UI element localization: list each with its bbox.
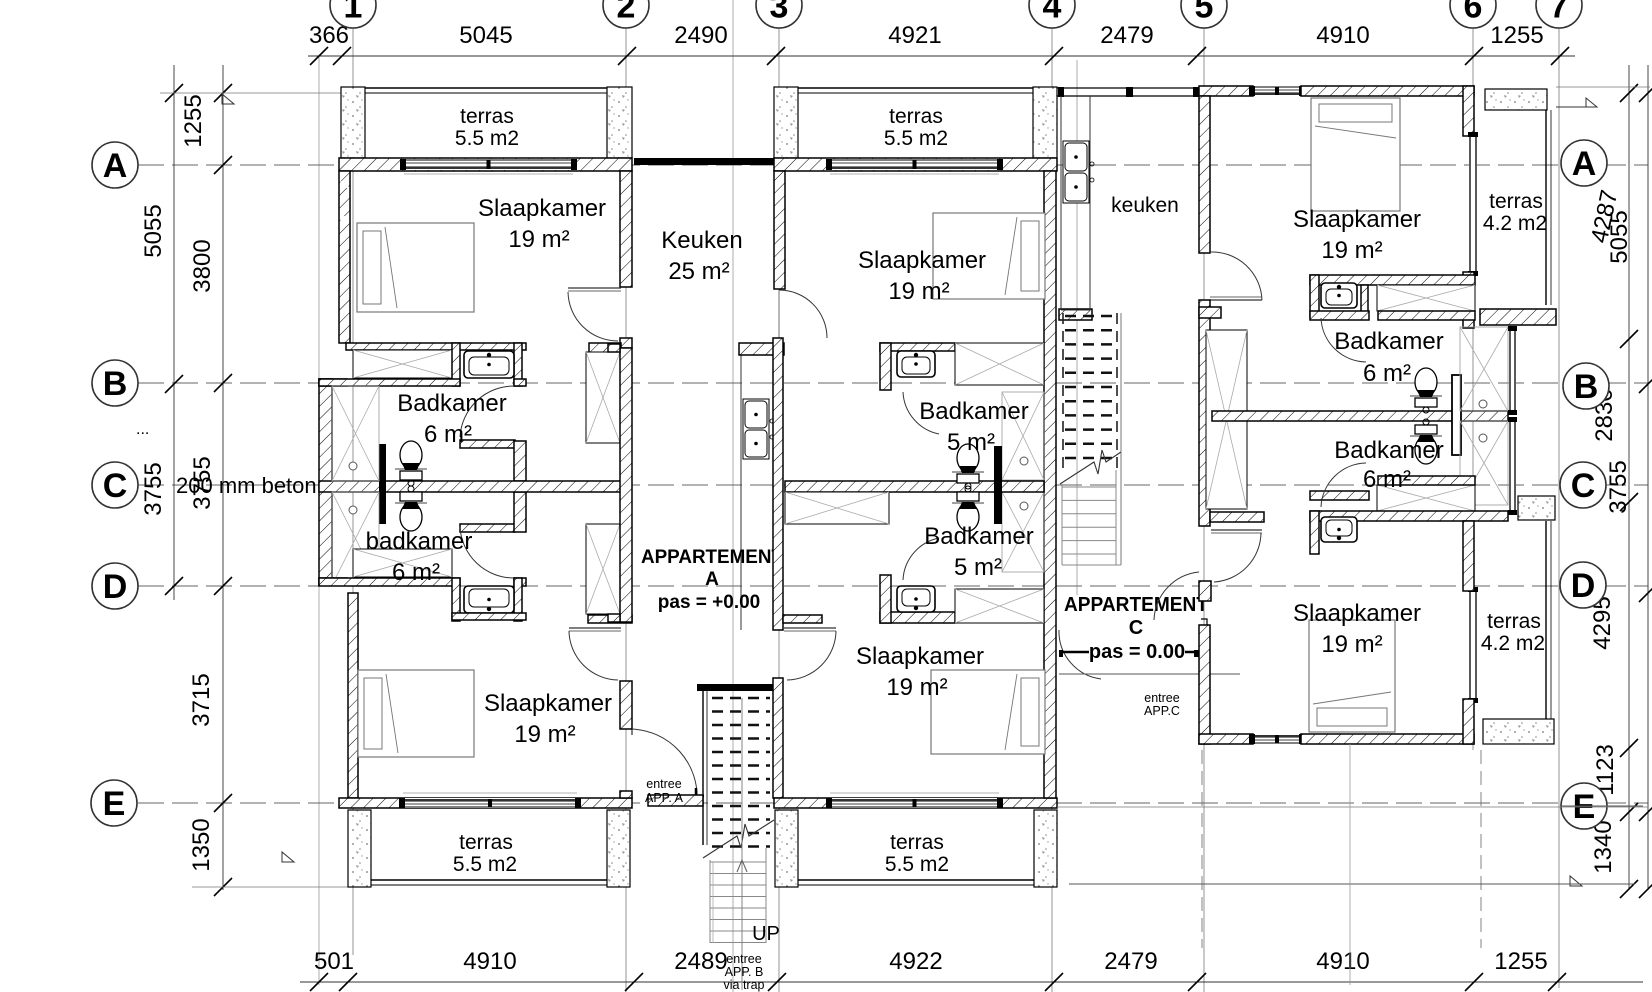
apartment A north window: [400, 159, 577, 170]
apartment A bathroom west connector bottom: [319, 578, 347, 585]
svg-text:5055: 5055: [140, 204, 167, 257]
svg-text:1255: 1255: [180, 94, 207, 147]
grid line 1 vertical: [352, 28, 354, 955]
stair B break zigzag: [703, 820, 774, 858]
grid bubble E right: [1561, 783, 1607, 829]
door apartment B bathroom top arc: [903, 392, 939, 434]
grid line 7 vertical: [1558, 28, 1560, 988]
apartment C bathroom east window lower: [1508, 417, 1517, 515]
toilet partition apartment A: [379, 444, 386, 524]
apartment B terras bottom left pier: [775, 810, 798, 887]
svg-text:3: 3: [770, 0, 789, 25]
grid bubble 5: [1181, 0, 1227, 28]
apartment A terras top right pier: [607, 87, 632, 158]
apartment A east wall mid stub: [620, 338, 632, 348]
svg-text:UP: UP: [752, 923, 780, 945]
svg-text:5.5 m2: 5.5 m2: [885, 853, 949, 876]
apartment C west wall stub below bedroom door: [1199, 581, 1211, 601]
svg-text:25 m²: 25 m²: [668, 258, 729, 285]
grid line 5 vertical: [1203, 28, 1205, 992]
svg-text:entree: entree: [1144, 691, 1179, 705]
apartment C bathroom north xbox: [1377, 285, 1475, 311]
svg-text:terras: terras: [1487, 610, 1541, 633]
reference line x=319: [318, 56, 320, 985]
apartment A terras top railing: [365, 87, 607, 89]
svg-text:terras: terras: [889, 105, 943, 128]
top dimension line: [308, 55, 1575, 57]
row E center line: [138, 802, 1648, 804]
apartment B bathroom bottom wall: [880, 612, 955, 623]
apartment C east window bottom (terrace door): [1468, 587, 1478, 703]
svg-text:terras: terras: [460, 105, 514, 128]
apartment A bathroom mid wall lower (with door gap): [319, 578, 460, 586]
svg-text:pas = 0.00: pas = 0.00: [1089, 641, 1185, 663]
toilet apartment C top: [1410, 368, 1442, 413]
svg-text:3755: 3755: [140, 462, 167, 515]
stair B side edge lower: [709, 860, 711, 943]
apartment A terras top left pier: [341, 87, 365, 158]
terras C bottom south pier: [1483, 719, 1554, 744]
grid bubble E left: [91, 780, 137, 826]
row C center line: [138, 484, 1648, 486]
apartment A west wall bathroom block: [319, 379, 332, 585]
door entree C arc at stairs: [1059, 630, 1101, 679]
terras C top right railing: [1545, 110, 1547, 305]
grid bubble 3: [756, 0, 802, 28]
apartment A east wall lower: [620, 681, 632, 729]
apartment A terras bottom railing: [371, 879, 607, 881]
svg-text:A: A: [1572, 145, 1597, 183]
bed apartment B top: [933, 213, 1045, 299]
svg-text:1340: 1340: [1590, 820, 1617, 873]
row D center line: [138, 585, 1648, 587]
svg-text:19 m²: 19 m²: [508, 226, 569, 253]
svg-text:Slaapkamer: Slaapkamer: [484, 690, 612, 717]
door apartment C bedroom bottom arc: [1214, 533, 1261, 582]
svg-text:19 m²: 19 m²: [1321, 237, 1382, 264]
grid bubble 2: [603, 0, 649, 28]
vertical reference line x=1350 below building: [1349, 744, 1351, 985]
reference line x=1077: [1076, 60, 1078, 595]
grid bubble C left: [92, 462, 138, 508]
grid line 6 vertical: [1472, 28, 1474, 750]
svg-text:2479: 2479: [1100, 22, 1153, 49]
entree APP A cross mark: [688, 788, 704, 804]
party wall row C apartment A: [319, 481, 626, 492]
grid bubble 4: [1029, 0, 1075, 28]
svg-text:D: D: [103, 568, 128, 606]
svg-text:E: E: [103, 785, 126, 823]
svg-text:2489: 2489: [674, 948, 727, 975]
svg-text:3715: 3715: [188, 673, 215, 726]
svg-text:Slaapkamer: Slaapkamer: [858, 247, 986, 274]
svg-text:Badkamer: Badkamer: [1334, 437, 1443, 464]
apartment A bathroom top wall: [346, 343, 526, 350]
svg-text:entree: entree: [646, 777, 681, 791]
apartment C west wall upper: [1199, 96, 1210, 253]
svg-text:5.5 m2: 5.5 m2: [453, 853, 517, 876]
door apartment C bedroom bottom leaf: [1211, 529, 1262, 531]
svg-text:Slaapkamer: Slaapkamer: [478, 195, 606, 222]
apartment A east wall middle: [620, 348, 632, 622]
svg-text:terras: terras: [890, 831, 944, 854]
svg-text:4.2 m2: 4.2 m2: [1481, 632, 1545, 655]
door apartment A bathroom top arc: [460, 386, 514, 437]
svg-text:APPARTEMENT: APPARTEMENT: [641, 547, 783, 568]
bed apartment B bottom: [931, 670, 1045, 754]
grid bubble B left: [92, 360, 138, 406]
washbasin apartment A top: [464, 351, 514, 378]
level triangle marker left: [222, 94, 234, 104]
apartment A bathroom top duct xbox: [353, 350, 452, 378]
door entree C arc in hall: [1154, 572, 1199, 620]
apartment C east wall bottom segments: [1463, 521, 1474, 591]
svg-text:6 m²: 6 m²: [1363, 466, 1411, 493]
apartment B bathroom bottom duct xbox: [955, 589, 1044, 623]
door apartment C bathroom top arc: [1321, 318, 1366, 362]
door apartment B bedroom top: [778, 290, 780, 338]
apartment A hall duct xbox lower: [586, 524, 620, 614]
apartment B east wall: [1044, 171, 1056, 798]
keuken A north wall black bar: [634, 158, 774, 165]
terras C mid wall piece: [1480, 309, 1556, 325]
svg-text:200 mm beton: 200 mm beton: [176, 473, 317, 498]
svg-text:badkamer: badkamer: [366, 528, 473, 555]
stair C bottom landing edge: [1062, 564, 1121, 566]
stair C dashed right border: [1116, 313, 1118, 470]
keuken C counter edges: [1060, 96, 1062, 310]
washbasin apartment B top: [897, 351, 935, 377]
grid bubble C right: [1560, 462, 1606, 508]
apartment A bedroom bottom north wall stub: [588, 615, 632, 623]
apartment B terras bottom railing: [798, 879, 1034, 881]
apartment C bathroom top sink walls: [1310, 275, 1319, 318]
svg-text:5: 5: [1195, 0, 1214, 25]
svg-text:1350: 1350: [188, 818, 215, 871]
apartment C bathroom south wall: [1310, 511, 1508, 521]
svg-text:6 m²: 6 m²: [1363, 360, 1411, 387]
reference vertical dash x=1202 below building: [1201, 750, 1203, 948]
apartment B terras top railing: [798, 87, 1033, 89]
svg-text:3755: 3755: [1605, 460, 1632, 513]
door apartment A bedroom bottom: [569, 627, 621, 629]
bed apartment A bottom: [358, 670, 474, 757]
wall piece below keuken C counter: [1059, 309, 1092, 320]
svg-text:4922: 4922: [889, 948, 942, 975]
svg-text:Badkamer: Badkamer: [919, 398, 1028, 425]
svg-text:C: C: [1571, 467, 1596, 505]
grid bubble A right: [1561, 140, 1607, 186]
apartment A south wall: [339, 798, 632, 808]
apartment B bathroom top left wall: [880, 343, 891, 390]
apartment B bathroom bottom left wall: [880, 575, 891, 623]
zone 4-5 lower boundary line: [1059, 673, 1240, 675]
svg-text:terras: terras: [459, 831, 513, 854]
svg-text:19 m²: 19 m²: [888, 278, 949, 305]
svg-text:Slaapkamer: Slaapkamer: [1293, 206, 1421, 233]
apartment C bathroom north wall: [1310, 275, 1475, 285]
apartment B bathroom top duct xbox: [955, 343, 1044, 385]
left inner dimension line: [222, 65, 224, 890]
svg-text:B: B: [103, 365, 128, 403]
apartment C west wall below bedroom door: [1199, 300, 1210, 526]
svg-text:19 m²: 19 m²: [1321, 631, 1382, 658]
party wall row C apartment C: [1212, 411, 1508, 421]
svg-text:6: 6: [1464, 0, 1483, 25]
apartment A bathroom bottom sink alcove bottom wall: [452, 613, 526, 620]
apartment A bathroom mid wall upper (with door gap): [319, 379, 460, 386]
apartment A bathroom bottom sink enclosure right wall: [514, 578, 522, 621]
toilet apartment A bottom: [395, 486, 427, 531]
flag mark top right: [1556, 106, 1586, 108]
party wall row C apartment B: [785, 481, 1044, 492]
svg-text:pas = +0.00: pas = +0.00: [658, 592, 760, 613]
svg-text:Badkamer: Badkamer: [924, 523, 1033, 550]
washbasin apartment C bottom: [1321, 517, 1357, 542]
terras C top pier stipple: [1485, 89, 1547, 110]
kitchen sink keuken C: [1063, 141, 1094, 203]
grid line 4 vertical: [1051, 28, 1053, 992]
apartment B west wall upper: [774, 171, 785, 289]
svg-text:1255: 1255: [1490, 22, 1543, 49]
svg-text:Slaapkamer: Slaapkamer: [856, 643, 984, 670]
right inner dimension line: [1628, 65, 1630, 890]
shower apartment A bottom: [332, 492, 379, 585]
apartment B terras top left pier: [774, 87, 798, 158]
apartment C east wall upper mid: [1463, 272, 1474, 328]
right outer dimension line: [1647, 65, 1649, 890]
svg-text:5 m²: 5 m²: [947, 429, 995, 456]
zone 4-5 north balustrade double line: [1057, 87, 1199, 89]
apartment A bathroom west connector top: [319, 379, 347, 386]
keuken A counter edge line: [740, 355, 742, 630]
svg-text:5.5 m2: 5.5 m2: [455, 127, 519, 150]
washbasin apartment A bottom: [464, 586, 514, 613]
svg-text:1: 1: [344, 0, 363, 25]
apartment A south window: [399, 798, 581, 808]
apartment B south window: [826, 798, 1003, 808]
svg-text:4.2 m2: 4.2 m2: [1483, 212, 1547, 235]
apartment A terras bottom right pier: [607, 810, 630, 887]
svg-text:19 m²: 19 m²: [514, 721, 575, 748]
terras C bottom right railing: [1545, 521, 1547, 734]
svg-text:5 m²: 5 m²: [954, 554, 1002, 581]
shower apartment A top: [332, 386, 379, 481]
apartment C east wall top: [1463, 86, 1474, 136]
apartment C bathroom bottom sink walls: [1310, 511, 1319, 554]
apartment C west wall stub at wall307: [1199, 307, 1221, 318]
grid line 3 vertical: [778, 28, 780, 992]
shower apartment B bottom: [1002, 492, 1044, 572]
apartment A bathroom bottom sink enclosure left wall: [452, 578, 460, 621]
apartment A east wall stub top of hall: [608, 344, 620, 352]
grid bubble A left: [92, 142, 138, 188]
toilet apartment C bottom: [1410, 419, 1442, 464]
toilet partition apartment C: [1452, 375, 1461, 455]
stair C treads solid lower flight: [1062, 486, 1116, 488]
washbasin apartment B bottom: [897, 586, 935, 612]
svg-text:5045: 5045: [459, 22, 512, 49]
reference line x=733: [732, 0, 734, 992]
apartment C bathroom south wall west piece: [1210, 512, 1264, 522]
apartment C south window: [1249, 734, 1305, 744]
apartment B terras top right pier: [1033, 87, 1057, 158]
svg-text:APP.C: APP.C: [1144, 704, 1180, 718]
svg-text:Badkamer: Badkamer: [397, 390, 506, 417]
extension line top of building left: [160, 92, 345, 94]
door apartment A bedroom top: [568, 287, 621, 289]
svg-text:2479: 2479: [1104, 948, 1157, 975]
door apartment A bathroom bottom arc: [460, 527, 514, 578]
svg-text:1255: 1255: [1494, 948, 1547, 975]
bed apartment A top: [357, 223, 474, 312]
door entree APP A arc: [632, 729, 697, 801]
apartment C bathroom east window upper: [1508, 326, 1517, 415]
svg-text:D: D: [1571, 567, 1596, 605]
bed apartment C bottom: [1309, 620, 1395, 732]
apartment C north wall west part: [1199, 86, 1253, 96]
grid bubble D left: [92, 563, 138, 609]
toilet apartment A top: [395, 441, 427, 486]
apartment C south wall west part: [1199, 734, 1253, 744]
reference vertical dash x=1481 below building: [1480, 750, 1482, 948]
terras C bottom pier stipple: [1518, 496, 1555, 520]
svg-text:7: 7: [1550, 0, 1569, 25]
apartment A wall stub left of east wall: [589, 343, 621, 354]
svg-text:APP. A: APP. A: [645, 791, 684, 805]
svg-text:4921: 4921: [888, 22, 941, 49]
apartment B south wall: [774, 798, 1057, 808]
apartment C bathroom south step wall: [1378, 476, 1475, 485]
svg-text:2: 2: [617, 0, 636, 25]
apartment C bathroom north step wall: [1378, 311, 1475, 320]
svg-text:C: C: [1129, 617, 1143, 639]
apartment C east window top (terrace door): [1468, 132, 1478, 276]
kitchen sink keuken A: [743, 399, 774, 459]
level triangle marker bottom left: [282, 852, 294, 862]
row A center line: [138, 164, 1648, 166]
left outer dimension line: [173, 65, 175, 600]
stair B treads solid lower flight: [710, 861, 766, 863]
bottom dimension line: [300, 981, 1643, 983]
pas 0.00 leader lines: [1059, 651, 1089, 654]
svg-text:2490: 2490: [674, 22, 727, 49]
stair B center rail and up arrow: [741, 698, 743, 990]
svg-text:B: B: [1574, 368, 1599, 406]
toilet apartment B bottom: [952, 486, 984, 531]
svg-text:4910: 4910: [1316, 22, 1369, 49]
stair C lower flight edges: [1061, 484, 1063, 565]
extension line top of building right: [1556, 86, 1650, 88]
apartment B west wall lower: [773, 678, 783, 798]
grid bubble 6: [1450, 0, 1496, 28]
stair C dashed left border: [1062, 313, 1064, 470]
apartment C north window: [1249, 86, 1305, 96]
svg-text:C: C: [103, 467, 128, 505]
apartment A bathroom top sink enclosure right wall: [514, 343, 522, 386]
xbox below party wall left B: [785, 492, 889, 524]
grid line 2 vertical: [625, 28, 627, 992]
svg-text:APP. B: APP. B: [725, 965, 764, 979]
apartment A west wall lower: [348, 593, 358, 798]
stair B top wall: [697, 684, 774, 691]
svg-text:A: A: [103, 147, 128, 185]
svg-text:keuken: keuken: [1111, 194, 1179, 217]
stair C break zigzag: [1060, 450, 1121, 484]
apartment B north wall: [774, 158, 1057, 171]
apartment C west wall lower: [1199, 625, 1210, 744]
grid bubble B right: [1563, 363, 1609, 409]
shower apartment C bottom: [1460, 421, 1508, 505]
svg-text:6 m²: 6 m²: [424, 421, 472, 448]
svg-text:Badkamer: Badkamer: [1334, 328, 1443, 355]
washbasin apartment C top: [1321, 283, 1357, 308]
stair C treads dashed upper flight: [1065, 315, 1119, 318]
door apartment B bathroom bottom arc: [903, 538, 939, 580]
stair B treads dashed upper flight: [712, 697, 770, 700]
shower apartment B top: [1002, 392, 1044, 480]
apartment A hall duct xbox upper: [586, 352, 620, 443]
svg-text:5.5 m2: 5.5 m2: [884, 127, 948, 150]
apartment B north window: [826, 159, 1003, 170]
apartment A east wall stub bottom of hall: [608, 614, 620, 622]
badkamer A bottom inner wall stub: [460, 524, 515, 532]
row B center line: [138, 382, 1648, 384]
apartment A north wall: [339, 158, 632, 171]
apartment C north wall east part: [1301, 86, 1474, 96]
apartment A bathroom top sink enclosure left wall: [452, 343, 460, 386]
svg-text:Keuken: Keuken: [661, 227, 742, 254]
long horizontal line row E right: [1561, 805, 1643, 807]
svg-text:via trap: via trap: [724, 978, 765, 992]
keuken A wall below door stub: [739, 343, 784, 355]
apartment C duct xbox west: [1206, 330, 1247, 509]
svg-text:501: 501: [314, 948, 354, 975]
corridor bottom wall piece: [648, 795, 703, 806]
door apartment C bedroom top: [1210, 299, 1262, 301]
svg-text:APPARTEMENT: APPARTEMENT: [1064, 594, 1208, 616]
svg-text:5055: 5055: [1606, 210, 1633, 263]
toilet apartment B top: [952, 444, 984, 489]
solid line row E right part: [1057, 806, 1648, 808]
shower apartment C top: [1460, 327, 1508, 411]
apartment A terras bottom left pier: [348, 810, 371, 887]
svg-text:4910: 4910: [463, 948, 516, 975]
apartment B bathroom top wall: [880, 343, 955, 351]
svg-text:4: 4: [1043, 0, 1062, 25]
svg-text:terras: terras: [1489, 190, 1543, 213]
level triangle marker right of C terras: [1570, 876, 1582, 886]
long horizontal line bottom right: [1069, 883, 1635, 885]
stair B left wall double line: [702, 686, 704, 845]
door apartment B bedroom bottom: [783, 615, 822, 623]
apartment A east wall upper: [620, 171, 632, 287]
svg-text:6 m²: 6 m²: [392, 559, 440, 586]
svg-text:3800: 3800: [189, 239, 216, 292]
svg-text:...: ...: [136, 421, 149, 438]
apartment A bathroom bottom duct xbox: [353, 549, 452, 577]
apartment B terras bottom right pier: [1034, 810, 1057, 887]
apartment C south wall east part: [1301, 734, 1474, 744]
apartment A west wall upper: [339, 171, 350, 343]
toilet partition apartment B: [994, 446, 1002, 524]
svg-text:19 m²: 19 m²: [886, 674, 947, 701]
bed apartment C top: [1311, 98, 1400, 211]
grid bubble 1: [330, 0, 376, 28]
svg-text:A: A: [705, 569, 719, 590]
apartment B west wall main: [773, 338, 783, 630]
grid bubble D right: [1560, 562, 1606, 608]
